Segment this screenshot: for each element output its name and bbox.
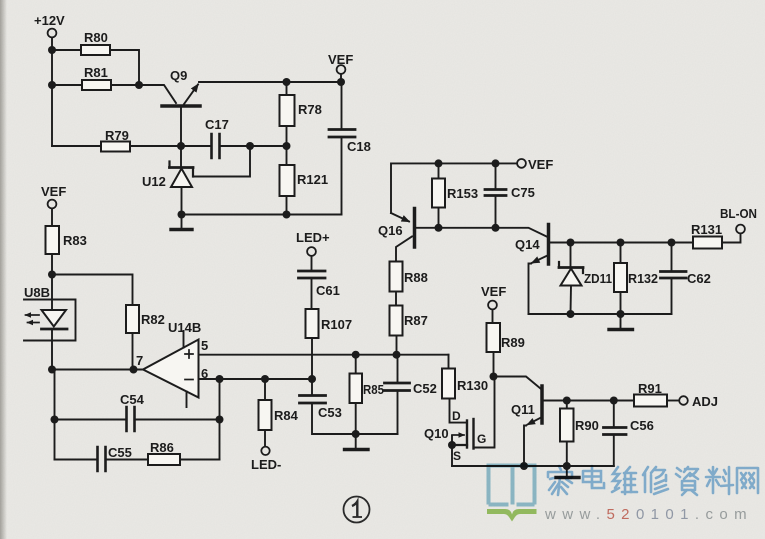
- svg-text:G: G: [477, 432, 486, 446]
- svg-text:R132: R132: [628, 271, 658, 286]
- svg-text:C17: C17: [205, 117, 229, 132]
- ground below R90: [566, 466, 568, 476]
- node ADJ terminal: [679, 396, 688, 405]
- char dian: [583, 466, 604, 488]
- resistor R87: [396, 336, 398, 355]
- wire R81 row: [52, 84, 139, 86]
- char jia: [548, 466, 572, 495]
- mosfet Q10: [450, 399, 467, 423]
- svg-text:R86: R86: [150, 440, 174, 455]
- svg-text:Q14: Q14: [515, 237, 540, 252]
- svg-text:ADJ: ADJ: [692, 394, 718, 409]
- op-amp U14B: [143, 340, 199, 398]
- svg-text:+12V: +12V: [34, 13, 65, 28]
- svg-text:ZD11: ZD11: [584, 271, 612, 286]
- wire R80 row: [52, 50, 139, 85]
- capacitor C55: [55, 459, 149, 461]
- resistor R132: [620, 243, 622, 315]
- watermark green brace: [487, 509, 537, 522]
- svg-text:U8B: U8B: [24, 285, 50, 300]
- svg-text:7: 7: [136, 353, 143, 368]
- watermark book logo: [487, 466, 537, 505]
- wire pin6 row: [199, 378, 313, 380]
- char wei: [612, 467, 637, 494]
- char zi: [676, 467, 698, 495]
- svg-text:LED+: LED+: [296, 230, 330, 245]
- svg-text:5: 5: [201, 338, 208, 353]
- svg-text:VEF: VEF: [328, 52, 353, 67]
- diode ZD11: [570, 243, 572, 268]
- resistor R85: [355, 355, 357, 434]
- wire bottom rail right: [529, 313, 672, 315]
- svg-text:LED-: LED-: [251, 457, 281, 472]
- svg-text:U14B: U14B: [168, 320, 201, 335]
- svg-text:C54: C54: [120, 392, 145, 407]
- svg-text:R107: R107: [321, 317, 352, 332]
- ground below R85: [355, 434, 357, 448]
- resistor R131: [693, 237, 722, 249]
- wire Q16 base row: [415, 228, 547, 237]
- svg-text:BL-ON: BL-ON: [720, 206, 757, 221]
- wire to R82: [52, 275, 133, 306]
- svg-text:C53: C53: [318, 405, 342, 420]
- capacitor C56: [613, 401, 615, 428]
- node LED+ terminal: [307, 247, 316, 256]
- wire Q14 collector rail: [549, 242, 694, 244]
- resistor R81: [82, 80, 111, 90]
- svg-text:D: D: [452, 409, 461, 423]
- wire R79 row: [52, 145, 181, 147]
- svg-text:C55: C55: [108, 445, 132, 460]
- U8B light arrows: [26, 314, 40, 316]
- ground below R132: [620, 314, 622, 328]
- resistor R153: [438, 163, 440, 227]
- node VEF terminal (mid): [517, 159, 526, 168]
- svg-text:U12: U12: [142, 174, 166, 189]
- svg-text:C52: C52: [413, 381, 437, 396]
- svg-text:R85: R85: [363, 382, 384, 397]
- svg-text:R91: R91: [638, 381, 662, 396]
- svg-text:R130: R130: [457, 378, 488, 393]
- resistor R90: [566, 401, 568, 467]
- svg-text:R79: R79: [105, 128, 129, 143]
- node LED- terminal: [261, 447, 269, 455]
- capacitor C75: [495, 163, 497, 227]
- diode U8B: [51, 275, 53, 311]
- node VEF terminal (bottom): [488, 301, 497, 310]
- resistor R107: [306, 309, 319, 338]
- resistor R84: [264, 379, 266, 447]
- wire feedback right leg: [219, 379, 221, 460]
- svg-text:S: S: [453, 449, 461, 463]
- svg-text:R131: R131: [691, 222, 722, 237]
- resistor R91: [634, 395, 667, 407]
- wire C17 junction down to U12 cathode: [193, 146, 250, 177]
- wire base feed to Q9: [139, 85, 176, 103]
- svg-text:C75: C75: [511, 185, 535, 200]
- transistor Q14: [547, 225, 551, 265]
- svg-text:R89: R89: [501, 335, 525, 350]
- svg-text:R90: R90: [575, 418, 599, 433]
- svg-text:Q16: Q16: [378, 223, 403, 238]
- svg-text:R83: R83: [63, 233, 87, 248]
- wire VEF top rail: [391, 163, 517, 213]
- wire C17 to R78 column: [250, 145, 287, 147]
- svg-text:R88: R88: [404, 270, 428, 285]
- svg-text:R87: R87: [404, 313, 428, 328]
- wire Q9 emitter top rail to VEF: [199, 81, 341, 83]
- resistor R83: [46, 226, 60, 254]
- svg-text:C18: C18: [347, 139, 371, 154]
- svg-text:Q11: Q11: [511, 402, 535, 417]
- figure number 1 in circle: [344, 497, 370, 523]
- capacitor C52: [397, 355, 399, 383]
- transistor Q16: [413, 209, 417, 248]
- node VEF terminal (top): [337, 65, 346, 74]
- capacitor C17: [181, 145, 250, 147]
- char wang: [737, 468, 758, 493]
- wire gate leg: [475, 377, 495, 448]
- svg-text:Q10: Q10: [424, 426, 449, 441]
- resistor R88: [390, 262, 403, 292]
- svg-text:R80: R80: [84, 30, 108, 45]
- resistor R86: [148, 454, 180, 465]
- transistor Q9: [162, 104, 200, 108]
- watermark chinese characters (stroke approximations): [548, 466, 758, 495]
- wire bottom row U12 to C18: [182, 214, 342, 216]
- svg-text:R82: R82: [141, 312, 165, 327]
- svg-text:C61: C61: [316, 283, 340, 298]
- wire R89 junction to Q11 collector: [494, 377, 541, 389]
- capacitor C62: [671, 243, 673, 272]
- svg-text:6: 6: [201, 366, 208, 381]
- transistor Q11: [540, 386, 544, 423]
- diode U12 (zener): [180, 146, 182, 168]
- char xiu: [643, 467, 668, 494]
- svg-text:VEF: VEF: [481, 284, 506, 299]
- capacitor C54: [55, 419, 220, 421]
- resistor R78: [286, 82, 288, 146]
- node VEF terminal (left): [48, 200, 57, 209]
- wire node7 row: [52, 369, 144, 371]
- wire +12V vertical rail: [51, 38, 53, 147]
- wire pin5 row: [199, 354, 449, 356]
- resistor R79: [101, 142, 130, 152]
- capacitor C18: [341, 82, 343, 129]
- capacitor C53: [311, 379, 313, 395]
- resistor R89: [487, 323, 501, 352]
- resistor R130: [448, 355, 450, 369]
- svg-text:C56: C56: [630, 418, 654, 433]
- svg-text:VEF: VEF: [41, 184, 66, 199]
- node +12V terminal: [48, 29, 57, 38]
- char liao: [706, 467, 733, 494]
- capacitor C61: [299, 271, 326, 278]
- svg-text:www.520101.com: www.520101.com: [544, 506, 753, 523]
- svg-text:VEF: VEF: [528, 157, 553, 172]
- wire feedback left leg: [52, 370, 55, 460]
- svg-text:R81: R81: [84, 65, 108, 80]
- resistor R82: [126, 305, 139, 333]
- ground below U12: [181, 215, 183, 229]
- wire bottom rail: [452, 465, 614, 467]
- svg-text:R121: R121: [297, 172, 328, 187]
- svg-text:Q9: Q9: [170, 68, 187, 83]
- node BL-ON terminal: [736, 225, 745, 234]
- svg-text:C62: C62: [687, 271, 711, 286]
- opto U8B box: [24, 300, 76, 341]
- svg-text:R153: R153: [447, 186, 478, 201]
- svg-text:R84: R84: [274, 408, 299, 423]
- wire Q11 base row: [542, 400, 634, 402]
- svg-text:R78: R78: [298, 102, 322, 117]
- resistor R121: [286, 146, 288, 215]
- resistor R80: [81, 45, 110, 55]
